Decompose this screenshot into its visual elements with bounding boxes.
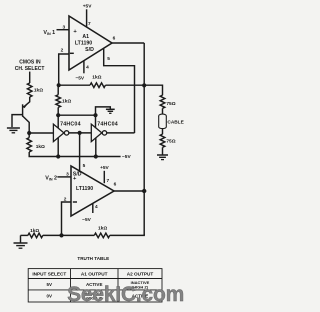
op-amp A1 LT1190 triangle [69,16,112,70]
svg-text:4: 4 [95,204,98,210]
svg-text:5V: 5V [47,282,53,287]
inverter U2 74HC04 [91,124,106,142]
resistor 1k below transistor [27,138,32,152]
wire U2 output to A1 S/D line [107,132,135,134]
svg-text:0V: 0V [47,294,53,299]
svg-text:A1 OUTPUT: A1 OUTPUT [81,271,108,276]
wire collector node to inverter U1 input [29,132,53,134]
wire U2 top supply pin [95,115,97,128]
svg-text:75Ω: 75Ω [166,101,175,107]
ground at transistor base [7,128,20,133]
truth table grid [28,269,162,302]
wire A1 pin 4 to -5V [83,61,85,74]
wire inverter ground rail [58,114,95,116]
resistor 1k ch select [27,83,32,97]
ground for logic rail [106,109,115,113]
wire 1k to -5V rail [29,152,120,157]
node VIN1 input label [43,30,55,36]
svg-text:A2 OUTPUT: A2 OUTPUT [127,271,154,276]
node junction A1 output / feedback [142,83,146,87]
svg-text:LT1190: LT1190 [76,186,93,192]
svg-text:3: 3 [66,171,69,177]
svg-text:INPUT SELECT: INPUT SELECT [32,271,66,276]
svg-text:7: 7 [88,21,91,27]
wire U1 output to U2 input [69,132,92,134]
truth table row 0V [47,291,149,301]
svg-text:5: 5 [107,56,110,62]
transistor Q1 level shifter [12,97,30,133]
node junction A2 output [142,189,146,193]
svg-text:VIN 1: VIN 1 [43,30,55,36]
svg-text:3: 3 [62,25,65,31]
node U2 supply on -5V rail [94,154,98,158]
svg-text:LT1190: LT1190 [75,41,92,47]
wire U1 output down to A2 pin 5 [79,133,81,171]
svg-text:−5V: −5V [82,217,91,223]
op-amp A2 LT1190 triangle [71,166,114,216]
resistor 75 ohm lower [160,134,165,147]
ground below cable termination [157,155,168,160]
svg-text:75Ω: 75Ω [166,139,175,145]
node rail left junction [56,113,60,117]
wire A1 pin 6 output to right bus [112,42,144,44]
wire lower 75 ohm to ground [162,147,164,154]
svg-text:5: 5 [83,163,86,169]
node rail right junction [93,113,97,117]
svg-text:1kΩ: 1kΩ [34,88,43,94]
wire node to gain resistor [57,85,59,115]
wire feedback resistor to 75 ohm branch [105,85,162,95]
resistor 75 ohm upper [160,95,165,108]
cable coax symbol [159,114,167,129]
wire cable to lower 75 ohm [162,128,164,134]
resistor 1k A2 gain [28,233,43,238]
wire feedback node to resistor [59,84,90,86]
wire VIN2 to A2 pin 3 [57,176,71,178]
wire elbow to logic ground [96,107,111,115]
svg-text:CABLE: CABLE [167,119,183,125]
truth table row 5V [47,280,150,290]
svg-text:7: 7 [106,178,109,184]
svg-text:CH. SELECT: CH. SELECT [15,66,45,72]
truth table header text [32,271,153,276]
node junction U1 output to A2 S/D [78,131,82,135]
svg-text:1kΩ: 1kΩ [98,226,107,232]
resistor 1k A2 feedback [94,233,109,238]
svg-text:A1: A1 [82,34,89,40]
svg-text:4: 4 [86,64,89,70]
svg-text:SeekIC.com: SeekIC.com [67,283,184,306]
svg-text:+5V: +5V [83,4,92,10]
svg-text:6: 6 [113,35,116,41]
ground A2 gain resistor [20,235,22,242]
svg-text:1kΩ: 1kΩ [36,144,45,150]
wire A1 pin 2 to feedback node [59,54,69,85]
wire feedback resistor to output bus [110,234,145,235]
wire output bus vertical [143,43,145,235]
node A1 inverting input junction [57,83,61,87]
svg-text:VIN 2: VIN 2 [45,176,57,182]
svg-text:74HC04: 74HC04 [60,122,81,128]
svg-text:+: + [73,176,77,182]
wire A2 pin 4 to -5V [92,204,94,214]
node CMOS IN CH. SELECT label [15,60,45,72]
wire gain resistor to inverting node [43,234,95,236]
svg-text:CMOS IN: CMOS IN [19,60,41,66]
svg-text:+5V: +5V [100,165,109,171]
svg-text:1kΩ: 1kΩ [30,228,39,234]
node A2 inverting input junction [59,233,63,237]
inverter U1 74HC04 [53,124,68,142]
wire 75 ohm to cable [162,108,164,114]
wire U1 top supply pin [57,115,59,128]
svg-text:1kΩ: 1kΩ [92,75,101,81]
svg-text:TRUTH TABLE: TRUTH TABLE [77,256,109,261]
svg-text:−5V: −5V [122,154,131,160]
svg-text:6: 6 [114,182,117,188]
wire U1 bottom supply pin [57,138,59,157]
wire A1 pin 5 S/D down and right [104,49,135,133]
wire collector node to 1k [28,133,30,138]
node transistor collector junction [27,131,31,135]
wire ground to 1k [21,234,28,236]
wire A2 pin 6 output to bus [114,190,144,192]
svg-text:S/D: S/D [85,47,94,53]
resistor 1k A1 gain to gnd rail [56,95,61,108]
svg-text:74HC04: 74HC04 [97,122,118,128]
wire ch select to 1k [29,72,31,83]
wire VIN1 to A1 pin 3 [57,29,70,31]
resistor 1k A1 feedback [90,83,105,88]
svg-text:2: 2 [64,197,67,203]
node U1 supply on -5V rail [56,154,60,158]
wire A2 pin 2 to feedback node [62,202,72,235]
wire +5V to A2 pin 7 [103,171,105,183]
svg-text:−5V: −5V [75,76,84,82]
svg-text:1kΩ: 1kΩ [62,99,71,105]
svg-text:2: 2 [61,48,64,54]
wire U2 bottom supply pin [95,138,97,157]
wire +5V to A1 pin 7 [86,9,88,27]
